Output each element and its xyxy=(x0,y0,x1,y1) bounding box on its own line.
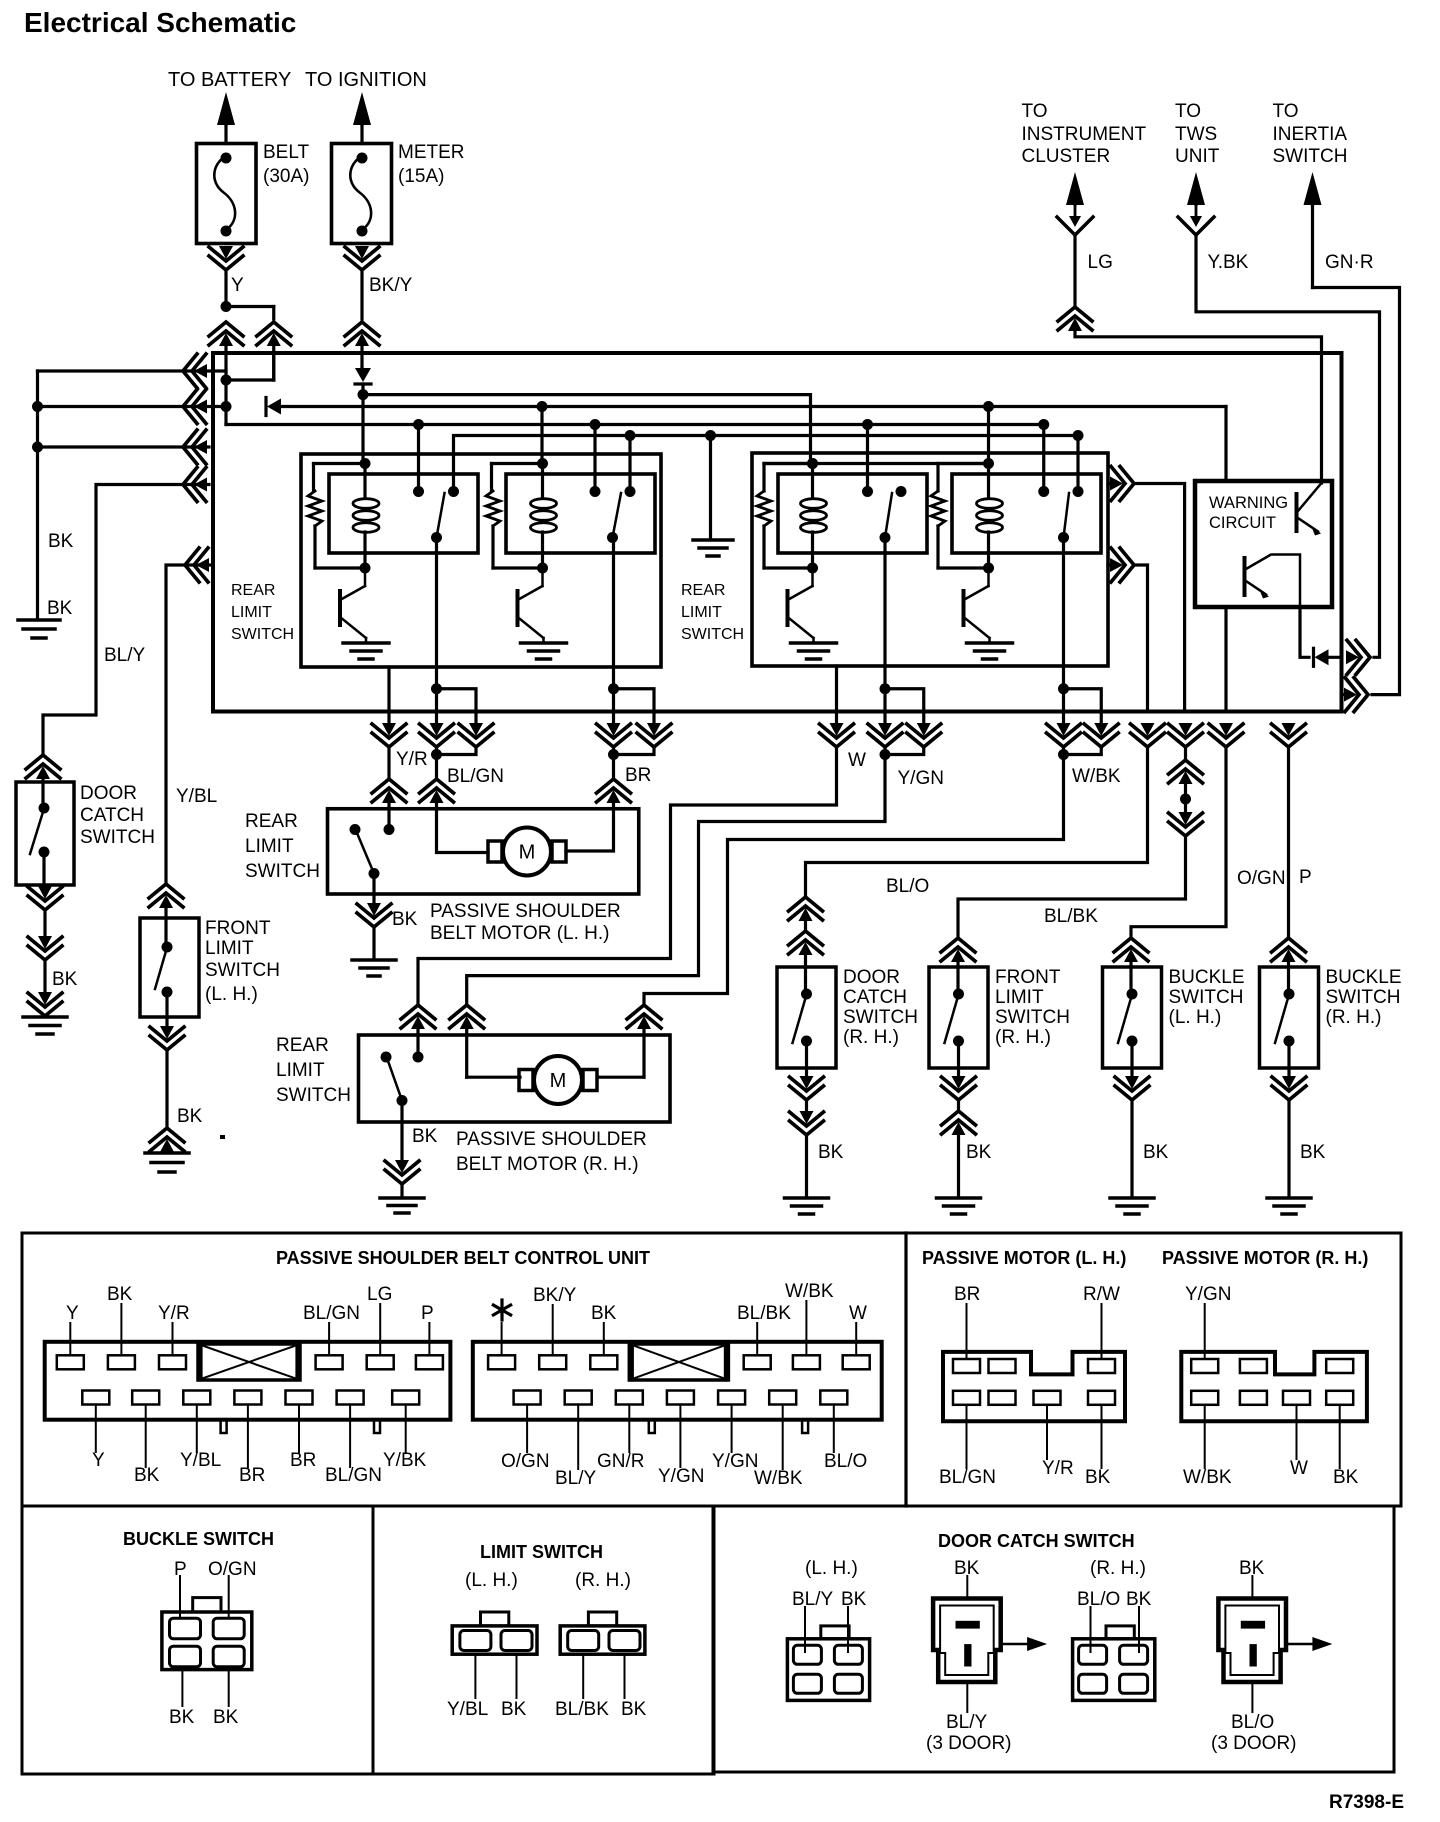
svg-text:LG: LG xyxy=(367,1284,392,1305)
svg-text:FRONT: FRONT xyxy=(995,967,1061,988)
svg-text:INERTIA: INERTIA xyxy=(1273,124,1348,145)
svg-text:BK/Y: BK/Y xyxy=(533,1285,577,1306)
svg-text:BK: BK xyxy=(501,1699,527,1720)
svg-text:BR: BR xyxy=(239,1465,265,1486)
svg-text:SWITCH: SWITCH xyxy=(245,861,320,882)
svg-text:W/BK: W/BK xyxy=(754,1468,803,1489)
svg-text:(R. H.): (R. H.) xyxy=(843,1027,899,1048)
svg-text:BK: BK xyxy=(412,1126,438,1147)
svg-text:P: P xyxy=(1299,867,1312,888)
svg-text:REAR: REAR xyxy=(231,582,275,599)
svg-text:(3 DOOR): (3 DOOR) xyxy=(926,1733,1012,1754)
svg-text:BK: BK xyxy=(966,1142,992,1163)
svg-text:W/BK: W/BK xyxy=(1072,766,1121,787)
svg-text:Y: Y xyxy=(231,275,244,296)
svg-text:REAR: REAR xyxy=(276,1035,329,1056)
svg-text:UNIT: UNIT xyxy=(1175,146,1220,167)
svg-text:Electrical Schematic: Electrical Schematic xyxy=(24,7,296,38)
svg-text:SWITCH: SWITCH xyxy=(1326,987,1401,1008)
svg-text:O/GN: O/GN xyxy=(1237,868,1286,889)
svg-text:SWITCH: SWITCH xyxy=(231,626,294,643)
svg-text:BL/GN: BL/GN xyxy=(939,1467,996,1488)
svg-text:BK: BK xyxy=(48,531,74,552)
svg-text:BUCKLE SWITCH: BUCKLE SWITCH xyxy=(123,1529,274,1549)
svg-text:SWITCH: SWITCH xyxy=(1273,146,1348,167)
svg-text:BK: BK xyxy=(47,598,73,619)
svg-text:Y/BL: Y/BL xyxy=(447,1699,488,1720)
svg-text:SWITCH: SWITCH xyxy=(1169,987,1244,1008)
svg-text:LIMIT SWITCH: LIMIT SWITCH xyxy=(480,1542,603,1562)
svg-text:P: P xyxy=(421,1303,434,1324)
svg-text:TO IGNITION: TO IGNITION xyxy=(305,69,427,91)
svg-text:M: M xyxy=(550,1070,567,1092)
svg-text:(L. H.): (L. H.) xyxy=(205,984,258,1005)
svg-text:CATCH: CATCH xyxy=(843,987,907,1008)
svg-text:PASSIVE SHOULDER: PASSIVE SHOULDER xyxy=(456,1129,647,1150)
svg-text:BK: BK xyxy=(841,1589,867,1610)
svg-text:BL/O: BL/O xyxy=(1231,1712,1274,1733)
svg-text:BK: BK xyxy=(1333,1467,1359,1488)
svg-text:BK: BK xyxy=(169,1707,195,1728)
svg-text:LIMIT: LIMIT xyxy=(681,604,722,621)
svg-text:BK: BK xyxy=(591,1303,617,1324)
svg-text:BK: BK xyxy=(213,1707,239,1728)
svg-text:(3 DOOR): (3 DOOR) xyxy=(1211,1733,1297,1754)
svg-text:Y/BK: Y/BK xyxy=(383,1450,427,1471)
svg-text:BL/Y: BL/Y xyxy=(555,1468,597,1489)
svg-text:(R. H.): (R. H.) xyxy=(575,1570,631,1591)
svg-text:BR: BR xyxy=(954,1284,980,1305)
svg-text:W/BK: W/BK xyxy=(1183,1467,1232,1488)
svg-text:BL/Y: BL/Y xyxy=(792,1589,834,1610)
svg-text:PASSIVE SHOULDER: PASSIVE SHOULDER xyxy=(430,901,621,922)
svg-text:BL/O: BL/O xyxy=(1077,1589,1120,1610)
svg-text:W: W xyxy=(848,750,866,771)
svg-text:(R. H.): (R. H.) xyxy=(1326,1007,1382,1028)
svg-text:BK: BK xyxy=(1143,1142,1169,1163)
svg-text:BL/BK: BL/BK xyxy=(555,1699,609,1720)
svg-text:Y: Y xyxy=(66,1303,79,1324)
svg-text:(30A): (30A) xyxy=(263,166,309,187)
svg-text:FRONT: FRONT xyxy=(205,918,271,939)
svg-text:PASSIVE MOTOR (L. H.): PASSIVE MOTOR (L. H.) xyxy=(922,1248,1126,1268)
svg-text:BK: BK xyxy=(107,1284,133,1305)
svg-text:R/W: R/W xyxy=(1083,1284,1120,1305)
svg-text:WARNING: WARNING xyxy=(1209,494,1288,512)
svg-text:Y/R: Y/R xyxy=(1042,1458,1074,1479)
svg-text:TO: TO xyxy=(1022,101,1048,122)
svg-text:Y: Y xyxy=(92,1450,105,1471)
svg-text:CIRCUIT: CIRCUIT xyxy=(1209,514,1276,532)
svg-text:BK: BK xyxy=(621,1699,647,1720)
svg-text:PASSIVE SHOULDER BELT CONTROL: PASSIVE SHOULDER BELT CONTROL UNIT xyxy=(276,1248,650,1268)
svg-text:Y/BL: Y/BL xyxy=(176,786,217,807)
svg-text:M: M xyxy=(519,842,536,864)
svg-text:BL/Y: BL/Y xyxy=(946,1712,988,1733)
svg-text:BK: BK xyxy=(52,969,78,990)
svg-text:(R. H.): (R. H.) xyxy=(1090,1558,1146,1579)
svg-text:BR: BR xyxy=(290,1450,316,1471)
svg-text:BL/Y: BL/Y xyxy=(104,645,146,666)
svg-text:BK/Y: BK/Y xyxy=(369,275,413,296)
svg-text:Y/GN: Y/GN xyxy=(712,1451,758,1472)
svg-text:W: W xyxy=(849,1303,867,1324)
svg-text:CLUSTER: CLUSTER xyxy=(1022,146,1111,167)
svg-text:O/GN: O/GN xyxy=(208,1559,257,1580)
svg-text:SWITCH: SWITCH xyxy=(80,827,155,848)
svg-text:W: W xyxy=(1290,1458,1308,1479)
svg-text:LIMIT: LIMIT xyxy=(245,836,294,857)
svg-text:DOOR CATCH SWITCH: DOOR CATCH SWITCH xyxy=(938,1531,1135,1551)
svg-text:BL/O: BL/O xyxy=(886,876,929,897)
svg-text:BL/BK: BL/BK xyxy=(1044,906,1098,927)
svg-text:(R. H.): (R. H.) xyxy=(995,1027,1051,1048)
svg-text:Y.BK: Y.BK xyxy=(1208,252,1249,273)
svg-text:BL/GN: BL/GN xyxy=(325,1465,382,1486)
svg-text:W/BK: W/BK xyxy=(785,1281,834,1302)
svg-text:CATCH: CATCH xyxy=(80,805,144,826)
svg-text:Y/GN: Y/GN xyxy=(898,768,944,789)
svg-text:(L. H.): (L. H.) xyxy=(1169,1007,1222,1028)
svg-text:DOOR: DOOR xyxy=(80,783,137,804)
svg-text:SWITCH: SWITCH xyxy=(205,960,280,981)
svg-text:(L. H.): (L. H.) xyxy=(465,1570,518,1591)
svg-text:REAR: REAR xyxy=(245,811,298,832)
svg-text:GN·R: GN·R xyxy=(1325,252,1374,273)
svg-text:BK: BK xyxy=(134,1465,160,1486)
svg-text:(15A): (15A) xyxy=(398,166,444,187)
svg-text:BK: BK xyxy=(177,1106,203,1127)
svg-text:BUCKLE: BUCKLE xyxy=(1169,967,1245,988)
svg-text:BK: BK xyxy=(1300,1142,1326,1163)
svg-text:TO: TO xyxy=(1273,101,1299,122)
svg-text:DOOR: DOOR xyxy=(843,967,900,988)
svg-text:TO BATTERY: TO BATTERY xyxy=(168,69,291,91)
svg-text:R7398-E: R7398-E xyxy=(1329,1792,1404,1813)
svg-text:REAR: REAR xyxy=(681,582,725,599)
svg-text:Y/BL: Y/BL xyxy=(180,1450,221,1471)
svg-text:LIMIT: LIMIT xyxy=(995,987,1044,1008)
svg-text:METER: METER xyxy=(398,142,465,163)
svg-text:Y/R: Y/R xyxy=(158,1303,190,1324)
svg-text:TWS: TWS xyxy=(1175,124,1217,145)
svg-text:LIMIT: LIMIT xyxy=(205,938,254,959)
svg-text:O/GN: O/GN xyxy=(501,1451,550,1472)
svg-text:BL/GN: BL/GN xyxy=(447,766,504,787)
svg-text:BK: BK xyxy=(392,909,418,930)
svg-text:BELT: BELT xyxy=(263,142,310,163)
svg-text:BL/GN: BL/GN xyxy=(303,1303,360,1324)
svg-text:(L. H.): (L. H.) xyxy=(805,1558,858,1579)
svg-text:BELT MOTOR (L. H.): BELT MOTOR (L. H.) xyxy=(430,923,609,944)
svg-text:Y/GN: Y/GN xyxy=(1185,1284,1231,1305)
svg-text:GN/R: GN/R xyxy=(597,1451,645,1472)
svg-text:LIMIT: LIMIT xyxy=(276,1060,325,1081)
svg-text:Y/R: Y/R xyxy=(396,749,428,770)
svg-text:SWITCH: SWITCH xyxy=(276,1085,351,1106)
svg-text:INSTRUMENT: INSTRUMENT xyxy=(1022,124,1147,145)
svg-text:LIMIT: LIMIT xyxy=(231,604,272,621)
svg-text:BL/O: BL/O xyxy=(824,1451,867,1472)
svg-text:BL/BK: BL/BK xyxy=(737,1303,791,1324)
svg-text:BR: BR xyxy=(625,765,651,786)
svg-text:SWITCH: SWITCH xyxy=(843,1007,918,1028)
svg-text:BELT MOTOR (R. H.): BELT MOTOR (R. H.) xyxy=(456,1154,639,1175)
svg-text:SWITCH: SWITCH xyxy=(681,626,744,643)
svg-text:PASSIVE MOTOR (R. H.): PASSIVE MOTOR (R. H.) xyxy=(1162,1248,1368,1268)
svg-text:TO: TO xyxy=(1175,101,1201,122)
svg-text:Y/GN: Y/GN xyxy=(658,1466,704,1487)
svg-text:BK: BK xyxy=(1085,1467,1111,1488)
svg-text:SWITCH: SWITCH xyxy=(995,1007,1070,1028)
svg-text:BK: BK xyxy=(818,1142,844,1163)
svg-text:BUCKLE: BUCKLE xyxy=(1326,967,1402,988)
svg-text:LG: LG xyxy=(1088,252,1113,273)
